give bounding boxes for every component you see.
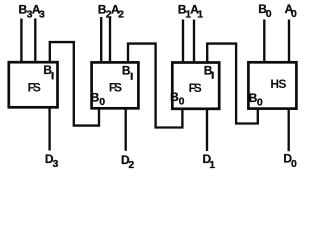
label D2 (121, 153, 134, 171)
svg-text:S: S (33, 81, 41, 95)
svg-text:0: 0 (99, 96, 105, 108)
svg-text:0: 0 (257, 97, 263, 109)
svg-text:0: 0 (266, 8, 272, 20)
pin label FS2 BI (122, 63, 133, 82)
svg-text:0: 0 (291, 158, 297, 170)
label B3A3 (19, 3, 46, 21)
svg-text:1: 1 (197, 8, 203, 20)
svg-text:S: S (278, 77, 286, 91)
wire B0 input (263, 20, 265, 63)
full subtractor FS3 (bit 3 stage) (9, 62, 58, 107)
pin label FS3 BI (43, 63, 53, 82)
label B0 (258, 2, 271, 20)
wire D2 output (125, 108, 127, 151)
label HS0 "HS" (270, 77, 286, 91)
pin label HS0 BO (249, 91, 263, 109)
label FS3 "FS" (28, 81, 41, 95)
svg-text:I: I (130, 72, 133, 83)
wire A2 input (109, 17, 111, 62)
full subtractor FS2 (bit 2 stage) (92, 62, 139, 108)
label D1 (203, 152, 216, 171)
label FS2 "FS" (109, 80, 122, 94)
svg-text:3: 3 (39, 8, 45, 20)
svg-text:3: 3 (53, 158, 59, 170)
wire borrow HS0.BO to FS1.BI (207, 44, 258, 124)
label D3 (45, 152, 59, 170)
label FS1 "FS" (189, 81, 202, 95)
wire borrow FS1.BO to FS2.BI (128, 44, 182, 128)
label A0 (285, 2, 297, 20)
wire A3 input (34, 19, 36, 63)
svg-text:0: 0 (179, 96, 185, 108)
wire borrow FS2.BO to FS3.BI (50, 42, 99, 126)
svg-text:1: 1 (209, 159, 215, 171)
pin label FS2 BO (91, 91, 106, 109)
svg-text:I: I (211, 71, 214, 82)
svg-text:I: I (51, 71, 54, 82)
wire B2 input (100, 17, 102, 62)
svg-text:2: 2 (128, 159, 134, 171)
svg-text:S: S (114, 80, 122, 94)
wire B3 input (20, 19, 22, 63)
pin label FS1 BO (170, 90, 185, 108)
wire A1 input (193, 20, 195, 63)
label B1A1 (178, 3, 204, 21)
label B2A2 (98, 3, 124, 21)
wire D0 output (288, 109, 290, 152)
wire B1 input (182, 20, 184, 63)
label D0 (283, 152, 297, 170)
svg-text:S: S (194, 81, 202, 95)
svg-text:0: 0 (291, 8, 297, 20)
pin label FS1 BI (204, 64, 214, 82)
svg-text:2: 2 (118, 8, 124, 20)
wire D1 output (206, 109, 208, 151)
full subtractor FS1 (bit 1 stage) (172, 63, 219, 109)
half subtractor HS0 (bit 0 stage) (248, 62, 296, 108)
wire A0 input (288, 20, 290, 63)
wire D3 output (48, 107, 50, 150)
